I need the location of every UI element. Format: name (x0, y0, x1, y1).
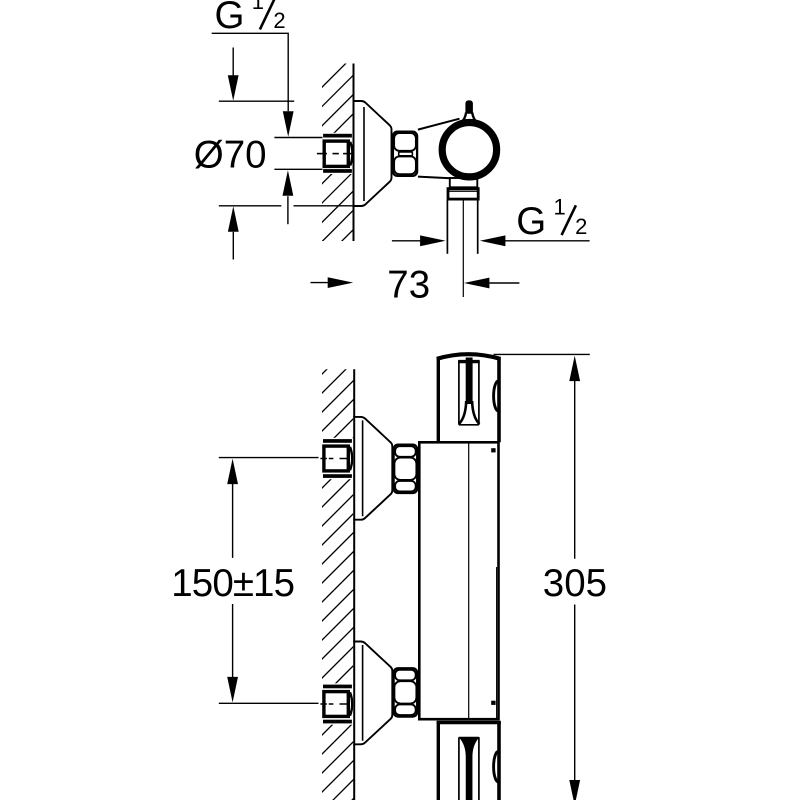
svg-text:G: G (215, 0, 245, 37)
concealed union fitting (lower, bottom view) (321, 683, 353, 724)
concealed union fitting (upper, bottom view) (321, 438, 353, 479)
valve body (top view) (418, 119, 460, 179)
dimension D70 extension lines (219, 101, 353, 206)
wall line (top view) (353, 64, 355, 242)
fitting centerline (upper, bottom view) (320, 458, 350, 460)
dimension 73 (311, 282, 329, 284)
svg-text:2: 2 (273, 8, 285, 33)
outlet connector below knob (top view) (448, 178, 478, 199)
svg-text:Ø70: Ø70 (194, 133, 267, 176)
concealed wall union fitting (top view) (322, 133, 353, 174)
hex nut (upper, bottom view) (394, 445, 418, 493)
escutcheon (upper, bottom view) (353, 417, 392, 520)
wall hatching (bottom view) (316, 336, 360, 800)
dimension 150+-15 line (227, 459, 238, 485)
knob stem (top view) (461, 100, 478, 123)
escutcheon (lower, bottom view) (353, 642, 392, 745)
shut-off handle circle (top view) (442, 123, 496, 177)
svg-text:1: 1 (554, 195, 566, 220)
escutcheon (top view) (354, 101, 392, 206)
wall hatching (top view) (316, 50, 360, 287)
hex nut (lower, bottom view) (394, 668, 418, 716)
D70 dimension arrows (232, 48, 234, 76)
svg-text:150±15: 150±15 (171, 562, 294, 605)
dimension 305 extension line (494, 353, 590, 355)
hex union nut (top view) (393, 132, 417, 176)
wall line (bottom view) (353, 369, 355, 800)
mixer body (bottom view) (419, 442, 498, 719)
dimension 305 line (569, 356, 580, 382)
dimension G 1/2 (pipe) (392, 240, 420, 242)
svg-text:1: 1 (252, 0, 264, 14)
svg-text:305: 305 (543, 562, 607, 605)
svg-text:73: 73 (387, 263, 430, 306)
hose pipe (top view) (447, 200, 477, 297)
dimension G 1/2 (top-left) leader (212, 33, 289, 224)
fitting centerline (lower, bottom view) (320, 703, 350, 705)
svg-text:G: G (516, 200, 546, 243)
svg-text:2: 2 (575, 214, 587, 239)
G 1/2 thread extension lines (274, 138, 322, 170)
lower handle section (bottom view) (437, 721, 501, 800)
fitting centerline (top view) (317, 153, 353, 155)
upper handle section (bottom view) (437, 354, 501, 442)
dimension 150+-15 extension lines (219, 458, 319, 704)
